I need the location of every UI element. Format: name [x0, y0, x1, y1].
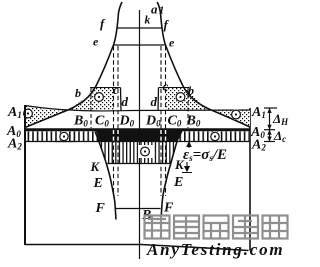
svg-text:A1: A1: [7, 105, 22, 120]
dim bracket vertical: [269, 108, 271, 142]
dim bracket right: tick A0: [264, 129, 275, 131]
stipple block left: [69, 88, 114, 110]
dim bracket right: tick A2: [264, 141, 275, 143]
svg-text:d: d: [122, 94, 129, 109]
svg-text:b: b: [75, 86, 81, 100]
circle symbol lens left: [23, 108, 33, 118]
plate bottom edge: [25, 245, 249, 251]
d line left: [120, 88, 123, 112]
f line: [117, 27, 162, 29]
svg-text:B0: B0: [186, 114, 201, 129]
svg-text:k: k: [145, 15, 151, 27]
stipple lens right: [210, 110, 250, 128]
dim arrowheads: [267, 108, 271, 142]
dim bracket right: tick A1: [264, 107, 277, 109]
svg-text:a: a: [151, 2, 158, 17]
dashed vertical x=188: [187, 88, 189, 128]
svg-text:F: F: [163, 201, 174, 216]
circle symbol lens right: [231, 109, 241, 119]
svg-text:E: E: [173, 175, 183, 190]
center axis: [139, 10, 141, 259]
funnel curve right: [161, 132, 180, 220]
svg-text:K: K: [90, 159, 101, 174]
svg-text:c: c: [113, 82, 119, 97]
curve right: [157, 2, 250, 127]
hatch band right: [178, 132, 251, 142]
svg-text:ΔH: ΔH: [272, 111, 289, 127]
funnel curve left: [95, 132, 116, 220]
svg-text:d: d: [151, 94, 158, 109]
center solid black band: [95, 129, 184, 142]
A1 line: [25, 106, 250, 111]
svg-text:f: f: [100, 16, 106, 31]
stipple lens left: [25, 106, 69, 128]
B line: [115, 208, 161, 210]
d line right: [157, 88, 160, 112]
circle symbol hatch left: [59, 131, 69, 141]
center hatch block: [99, 142, 177, 165]
svg-text:F: F: [95, 201, 106, 216]
svg-text:C0: C0: [95, 114, 109, 129]
circle symbol stipple left: [94, 92, 104, 102]
white knockout dashes in black band: [114, 130, 166, 142]
A0 line (thick): [25, 128, 250, 131]
svg-text:B0: B0: [73, 114, 88, 129]
plate left edge redraw: [24, 105, 26, 245]
K line: [107, 163, 172, 165]
svg-text:b: b: [188, 84, 194, 98]
stipple top line right: [159, 87, 190, 89]
svg-text:e: e: [169, 36, 175, 50]
dashed vertical x=118: [117, 46, 119, 196]
circle symbol center: [138, 145, 153, 158]
plate right edge: [249, 108, 251, 251]
hatch band left: [25, 132, 99, 142]
dashed vertical x=165.5: [165, 46, 167, 196]
svg-text:εs=σs/E: εs=σs/E: [183, 147, 227, 163]
svg-text:D0: D0: [119, 114, 135, 129]
dashed vertical x=161: [160, 46, 162, 196]
circle symbol stipple right: [175, 92, 185, 102]
svg-text:AnyTesting.com: AnyTesting.com: [146, 240, 284, 259]
svg-text:Δc: Δc: [273, 128, 286, 144]
svg-text:A1: A1: [251, 105, 266, 120]
watermark chinese: [145, 216, 288, 239]
stipple block right: [166, 88, 211, 110]
e line: [114, 44, 165, 46]
dashed vertical x=113.5: [113, 46, 115, 196]
dashed vertical x=91: [90, 88, 92, 128]
svg-text:e: e: [93, 35, 99, 49]
eps annotation arrow down: [182, 162, 192, 173]
plate left edge: [24, 105, 26, 245]
A2 line redraw segments: [55, 141, 223, 143]
svg-text:C0: C0: [168, 114, 182, 129]
curve left: [25, 2, 122, 128]
circle symbol hatch right: [210, 131, 220, 141]
eps annotation arrow up: [187, 142, 191, 148]
svg-text:D0: D0: [145, 114, 161, 129]
svg-text:1: 1: [159, 6, 164, 17]
svg-text:f: f: [164, 17, 170, 32]
svg-text:E: E: [93, 176, 103, 191]
A2 line: [25, 141, 250, 143]
stipple top line left: [90, 87, 121, 89]
svg-text:c: c: [163, 79, 169, 94]
